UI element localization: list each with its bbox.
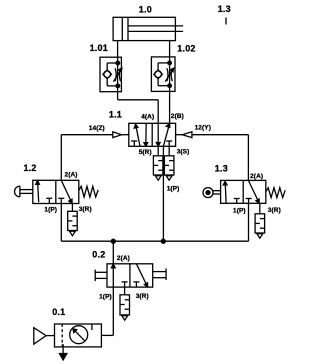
svg-text:5(R): 5(R) [139,149,152,156]
svg-text:0.2: 0.2 [92,249,105,259]
svg-text:4(A): 4(A) [141,114,154,121]
svg-text:1.0: 1.0 [139,5,152,15]
svg-text:1(P): 1(P) [44,206,57,213]
svg-text:1.01: 1.01 [90,43,108,53]
svg-text:2(A): 2(A) [250,173,263,180]
svg-text:2(A): 2(A) [117,255,130,262]
svg-text:1(P): 1(P) [99,294,112,301]
svg-text:3(R): 3(R) [268,207,281,214]
svg-text:1(P): 1(P) [167,185,180,192]
svg-text:3(R): 3(R) [136,293,149,300]
svg-text:3(S): 3(S) [177,149,190,156]
svg-text:3(R): 3(R) [79,206,92,213]
svg-text:1.2: 1.2 [24,163,37,173]
svg-text:1.02: 1.02 [177,44,195,54]
svg-text:2(A): 2(A) [65,171,78,178]
svg-text:1.1: 1.1 [109,110,122,120]
svg-text:0.1: 0.1 [52,307,65,317]
svg-text:12(Y): 12(Y) [195,125,211,132]
svg-text:2(B): 2(B) [171,113,184,120]
svg-text:1(P): 1(P) [233,208,246,215]
svg-text:14(Z): 14(Z) [89,125,105,132]
svg-text:1.3: 1.3 [218,4,231,14]
svg-text:1.3: 1.3 [215,164,228,174]
